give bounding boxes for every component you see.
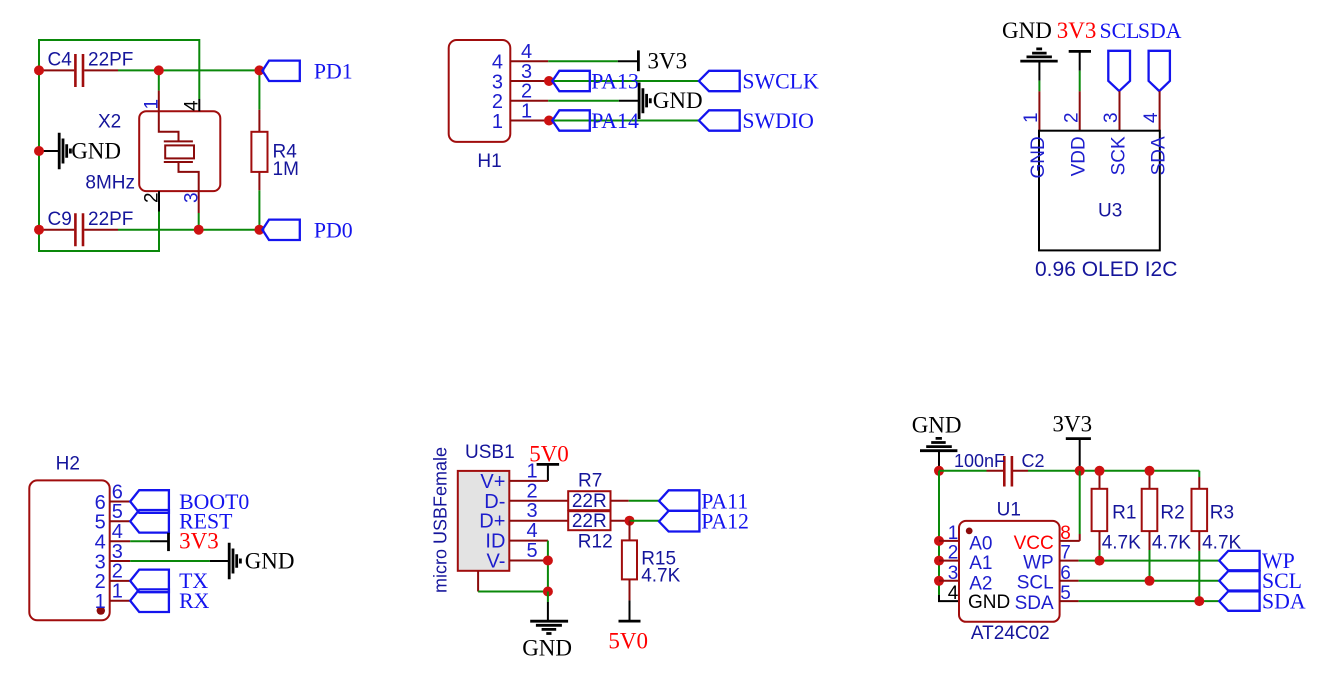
junction D+ / R15 <box>625 516 635 526</box>
svg-text:U1: U1 <box>997 499 1021 520</box>
svg-text:4: 4 <box>492 52 503 74</box>
resistor R1 <box>1099 471 1101 489</box>
svg-text:3V3: 3V3 <box>648 48 688 73</box>
svg-text:SCK: SCK <box>1108 136 1129 175</box>
svg-text:4: 4 <box>95 532 106 554</box>
svg-text:8MHz: 8MHz <box>85 172 135 193</box>
svg-text:D-: D- <box>484 491 505 513</box>
resistor R3 <box>1198 471 1200 477</box>
junction pin3/C9 <box>194 225 204 235</box>
pin 3 D+ <box>509 520 568 522</box>
IC U3 body <box>1039 131 1160 251</box>
svg-text:GND: GND <box>968 592 1010 613</box>
svg-text:2: 2 <box>1061 112 1082 123</box>
svg-text:U3: U3 <box>1098 201 1122 222</box>
junction pin1/C4 <box>154 65 164 75</box>
resistor R2 <box>1149 471 1151 489</box>
svg-text:SDA: SDA <box>1015 593 1054 614</box>
resistor R12 <box>568 511 610 530</box>
svg-text:6: 6 <box>95 492 106 514</box>
port PA13 <box>552 71 590 91</box>
svg-text:1: 1 <box>112 581 123 603</box>
svg-text:GND: GND <box>653 88 703 113</box>
svg-text:4.7K: 4.7K <box>1152 532 1191 553</box>
junction GND node <box>34 146 44 156</box>
svg-text:1: 1 <box>521 100 532 122</box>
svg-text:R1: R1 <box>1112 503 1136 524</box>
svg-text:V+: V+ <box>480 471 505 493</box>
ground symbol (U3 pin1) <box>1020 49 1057 61</box>
port PD0 <box>262 220 299 240</box>
svg-text:PA13: PA13 <box>591 69 639 93</box>
svg-text:2: 2 <box>95 571 106 593</box>
svg-text:3: 3 <box>112 541 123 563</box>
svg-text:4: 4 <box>112 521 123 543</box>
wire pin4 to 3V3 <box>130 540 150 542</box>
svg-text:PA12: PA12 <box>701 510 749 534</box>
junction R3 bottom / SDA <box>1194 596 1204 606</box>
svg-text:micro USBFemale: micro USBFemale <box>431 447 451 593</box>
wire PA13 row <box>549 80 699 82</box>
svg-text:C4: C4 <box>48 50 73 71</box>
svg-text:GND: GND <box>71 139 121 164</box>
junction C9 left <box>34 225 44 235</box>
port REST <box>130 510 169 533</box>
svg-text:3: 3 <box>527 500 538 522</box>
wire PA14 row <box>549 120 699 122</box>
svg-text:GND: GND <box>1028 136 1049 178</box>
junction gnd node <box>543 587 553 597</box>
svg-text:R7: R7 <box>578 471 602 492</box>
svg-text:RX: RX <box>179 589 210 613</box>
svg-text:ID: ID <box>485 531 505 553</box>
svg-text:5: 5 <box>527 540 538 562</box>
junction R2 top <box>1145 466 1155 476</box>
junction 3V3 <box>1075 466 1085 476</box>
svg-text:5: 5 <box>112 501 123 523</box>
svg-text:H2: H2 <box>56 453 80 474</box>
svg-text:SWDIO: SWDIO <box>742 109 813 133</box>
wire pin4 to 3V3 <box>548 60 618 62</box>
svg-text:2: 2 <box>142 192 163 203</box>
svg-text:SCL: SCL <box>1017 573 1054 594</box>
junction U1 pin3 <box>934 576 944 586</box>
pin 2 D- <box>509 500 568 502</box>
wire green loop pin4-top-left-bottom-pin2 <box>39 40 199 251</box>
wire ID down <box>547 541 549 592</box>
power flag 5V0 (bottom) <box>629 600 631 621</box>
svg-text:22R: 22R <box>572 491 607 512</box>
svg-text:SDA: SDA <box>1262 589 1306 613</box>
svg-text:2: 2 <box>948 543 959 564</box>
svg-text:3: 3 <box>95 551 106 573</box>
pin 4 H2 <box>110 540 131 542</box>
pin 2 X2 <box>158 191 160 211</box>
U1 pin1 marker <box>966 528 973 535</box>
capacitor C9 <box>39 229 118 231</box>
wire left gnd column <box>938 471 940 595</box>
port SDA (U3 pin4) <box>1149 51 1170 91</box>
svg-text:C9: C9 <box>48 209 72 230</box>
svg-text:GND: GND <box>245 548 295 573</box>
pin 1 H1 <box>510 120 549 122</box>
junction pin1 H1 <box>544 116 554 126</box>
svg-text:3: 3 <box>492 71 503 93</box>
wire pin3 to GND <box>130 560 210 562</box>
svg-text:AT24C02: AT24C02 <box>971 623 1050 644</box>
junction PD0/R4 <box>254 225 264 235</box>
svg-text:GND: GND <box>912 412 962 437</box>
U3 pin stubs <box>1039 91 1159 131</box>
pin 4 ID <box>509 540 548 542</box>
pin 3 H2 <box>110 560 131 562</box>
svg-text:4: 4 <box>948 583 959 604</box>
svg-text:4.7K: 4.7K <box>641 565 680 586</box>
wire C4 row green <box>118 69 259 71</box>
svg-text:D+: D+ <box>479 511 505 533</box>
svg-text:PA14: PA14 <box>591 109 639 133</box>
svg-text:100nF: 100nF <box>954 451 1005 471</box>
junction V- <box>543 556 553 566</box>
pin stubs right U1 <box>1060 561 1079 602</box>
wire R12 to PA12 <box>630 520 660 522</box>
svg-text:A0: A0 <box>969 534 992 555</box>
svg-text:X2: X2 <box>98 112 121 133</box>
port SDA <box>1219 591 1259 610</box>
ground symbol (AT24) <box>920 438 957 450</box>
pin 4 H1 <box>510 60 548 62</box>
pin 2 H2 <box>110 580 131 582</box>
svg-text:R2: R2 <box>1160 503 1184 524</box>
junction R2 bottom / SCL <box>1145 576 1155 586</box>
pin 6 H2 <box>110 501 131 503</box>
pin 5 H2 <box>110 520 131 522</box>
port BOOT0 <box>130 490 169 513</box>
wire pin2 to GND <box>548 100 619 102</box>
resistor R4 <box>258 70 260 229</box>
svg-text:22PF: 22PF <box>88 209 133 230</box>
wire shield to gnd <box>477 571 479 592</box>
svg-text:2: 2 <box>492 91 503 113</box>
ground GND (H1) <box>619 100 639 102</box>
svg-text:22R: 22R <box>572 511 607 532</box>
svg-text:USB1: USB1 <box>465 442 515 463</box>
port WP <box>1219 551 1259 570</box>
svg-text:2: 2 <box>112 561 123 583</box>
capacitor C2 <box>987 470 1029 472</box>
wire R7 to PA11 <box>629 500 659 502</box>
svg-text:4: 4 <box>527 520 538 542</box>
svg-text:4: 4 <box>521 41 532 63</box>
wire top row <box>939 470 1199 472</box>
svg-text:1: 1 <box>141 99 162 110</box>
svg-text:8: 8 <box>1060 523 1071 544</box>
junction U1 pin2 <box>934 556 944 566</box>
junction gnd/c2 <box>934 466 944 476</box>
junction U1 pin1 <box>934 536 944 546</box>
svg-text:5V0: 5V0 <box>608 628 648 653</box>
port PA12 <box>659 511 699 532</box>
power flag 3V3 (U3 pin2) <box>1069 50 1091 53</box>
svg-text:1: 1 <box>95 591 106 613</box>
svg-text:3: 3 <box>521 61 532 83</box>
pin 3 H1 <box>510 80 549 82</box>
svg-text:VDD: VDD <box>1069 136 1090 176</box>
wire SCL row <box>1079 580 1220 582</box>
power flag 3V3 (H2) <box>150 540 169 542</box>
pin 2 H1 <box>510 100 548 102</box>
svg-text:SDA: SDA <box>1148 136 1169 175</box>
port PD1 <box>262 61 299 81</box>
junction R1 top <box>1095 466 1105 476</box>
svg-text:2: 2 <box>521 81 532 103</box>
port SCL <box>1219 571 1259 590</box>
svg-text:R3: R3 <box>1210 503 1234 524</box>
H2 pin1 marker dot <box>97 606 105 614</box>
svg-text:0.96 OLED I2C: 0.96 OLED I2C <box>1035 258 1177 281</box>
IC U1 body <box>959 521 1060 622</box>
svg-text:GND: GND <box>1002 18 1052 43</box>
wire 3V3 to VCC pin8 <box>1079 471 1081 534</box>
pin 5 V- <box>509 560 548 562</box>
svg-text:6: 6 <box>112 481 123 503</box>
svg-text:C2: C2 <box>1022 451 1045 471</box>
capacitor C4 <box>39 69 118 71</box>
svg-text:3: 3 <box>1101 112 1122 123</box>
port RX <box>130 589 169 612</box>
svg-text:4: 4 <box>182 100 203 111</box>
svg-text:SDA: SDA <box>1138 19 1182 43</box>
svg-text:3V3: 3V3 <box>1053 411 1093 436</box>
port SWCLK <box>699 71 740 91</box>
svg-text:1: 1 <box>492 111 503 133</box>
pin 1 V+ <box>509 480 548 482</box>
port TX <box>130 570 169 593</box>
svg-text:22PF: 22PF <box>88 50 133 71</box>
resistor R7 <box>568 491 610 510</box>
wire C9 row green <box>118 229 259 231</box>
svg-text:SCL: SCL <box>1100 19 1140 43</box>
svg-text:R12: R12 <box>578 531 613 552</box>
ground GND left of X2 <box>41 150 59 152</box>
resistor R15 <box>629 521 631 541</box>
svg-text:2: 2 <box>527 480 538 502</box>
svg-text:1: 1 <box>948 523 959 544</box>
junction R1 bottom / WP <box>1095 556 1105 566</box>
pin 4 X2 <box>198 99 200 111</box>
header H1 body <box>449 40 511 142</box>
crystal X2 body <box>139 111 220 191</box>
svg-text:3V3: 3V3 <box>179 529 219 554</box>
junction pin3 H1 <box>544 76 554 86</box>
svg-text:3: 3 <box>948 563 959 584</box>
svg-text:GND: GND <box>522 636 572 661</box>
pin stubs left U1 <box>939 541 959 581</box>
port SWDIO <box>699 110 740 130</box>
svg-text:PD1: PD1 <box>314 59 353 83</box>
ground GND (USB1) <box>547 592 549 603</box>
pin 3 X2 <box>198 191 200 213</box>
svg-text:V-: V- <box>486 551 505 573</box>
port PA11 <box>659 490 699 511</box>
svg-text:3V3: 3V3 <box>1057 18 1097 43</box>
pin 1 X2 <box>158 70 160 90</box>
junction C4 left <box>34 65 44 75</box>
svg-text:A1: A1 <box>969 553 992 574</box>
svg-text:4.7K: 4.7K <box>1102 532 1141 553</box>
USB1 body <box>458 471 510 571</box>
svg-text:3: 3 <box>182 192 203 203</box>
svg-text:H1: H1 <box>477 151 501 172</box>
svg-text:4: 4 <box>1141 112 1162 123</box>
header H2 body <box>29 480 109 620</box>
port PA14 <box>552 110 590 130</box>
svg-text:PD0: PD0 <box>314 218 353 242</box>
svg-text:1M: 1M <box>273 159 299 180</box>
svg-text:VCC: VCC <box>1014 533 1054 554</box>
pin 1 H2 <box>110 600 131 602</box>
power flag 3V3 (H1) <box>618 60 639 62</box>
wire SDA row <box>1079 600 1220 602</box>
svg-text:1: 1 <box>1021 112 1042 123</box>
junction PD1/R4 <box>254 65 264 75</box>
svg-text:1: 1 <box>527 460 538 482</box>
svg-text:SWCLK: SWCLK <box>742 69 819 93</box>
svg-text:WP: WP <box>1023 553 1054 574</box>
svg-text:5: 5 <box>95 512 106 534</box>
ground GND (H2) <box>210 560 229 562</box>
port SCL (U3 pin3) <box>1108 51 1130 91</box>
wire WP row <box>1079 560 1220 562</box>
